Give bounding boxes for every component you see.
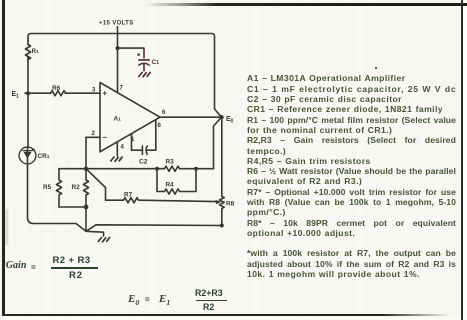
wire: R2 bottom to ground vee bbox=[85, 207, 87, 231]
resistor R5 bbox=[56, 169, 61, 207]
svg-text:R2: R2 bbox=[72, 184, 81, 191]
stray dot artifact bbox=[375, 67, 377, 69]
wire: output pin 6 to E0 bbox=[160, 116, 222, 118]
node R8 bottom bbox=[220, 224, 224, 228]
wire: R6 to pin 3 bbox=[66, 92, 101, 94]
wire: R7 to R8 wiper arrow bbox=[140, 200, 218, 201]
svg-text:4: 4 bbox=[121, 145, 125, 151]
resistor R3 bbox=[165, 166, 180, 171]
capacitor C1 bbox=[139, 49, 150, 71]
op-amp - mark bbox=[103, 136, 106, 138]
svg-text:R4: R4 bbox=[166, 182, 175, 189]
potentiometer R8 body bbox=[221, 119, 223, 196]
ground (C1) bbox=[139, 73, 150, 77]
svg-text:R5: R5 bbox=[43, 184, 52, 191]
wire: top bootstrap rail bbox=[28, 34, 222, 118]
svg-text:R7: R7 bbox=[124, 192, 133, 199]
resistor R6 bbox=[51, 91, 66, 96]
op-amp A1 bbox=[100, 83, 160, 152]
ground (pin 4) bbox=[111, 157, 122, 161]
ground (main vee) bbox=[86, 231, 104, 236]
svg-text:R3: R3 bbox=[166, 159, 175, 166]
node: C1 tap junction bbox=[116, 46, 120, 50]
node E1 junction bbox=[26, 91, 30, 95]
wire: R3 to feedback drop bbox=[181, 168, 214, 170]
node E0 bbox=[219, 115, 223, 119]
svg-text:A1: A1 bbox=[114, 116, 122, 123]
pin 4 stub wire bbox=[116, 142, 118, 156]
node R4 left tap bbox=[155, 167, 159, 171]
wire: inverting node to R3 bbox=[86, 168, 165, 170]
+15V supply wire bbox=[117, 27, 119, 93]
wire: R5 branch top bbox=[59, 168, 86, 170]
resistor R1 bbox=[25, 45, 30, 60]
svg-text:E0: E0 bbox=[226, 116, 234, 125]
wire: left rail R1 to CR1 bbox=[27, 57, 29, 148]
gain formula bbox=[3, 260, 27, 271]
svg-text:E1: E1 bbox=[12, 91, 20, 100]
svg-text:2: 2 bbox=[92, 131, 96, 137]
wire: feedback drop E0 to R3 row bbox=[214, 117, 222, 169]
node inverting junction bbox=[84, 167, 88, 171]
wire: diagonal inverting node to R7 bbox=[86, 169, 124, 201]
svg-text:8: 8 bbox=[158, 123, 162, 129]
svg-text:C2: C2 bbox=[139, 159, 148, 166]
svg-text:R6: R6 bbox=[52, 85, 61, 92]
parts list text bbox=[247, 74, 456, 83]
node R2 bottom junction bbox=[84, 205, 89, 210]
svg-text:R8: R8 bbox=[226, 201, 235, 208]
svg-text:+15 VOLTS: +15 VOLTS bbox=[99, 21, 134, 27]
zener diode CR1 bbox=[19, 147, 36, 164]
svg-text:C1: C1 bbox=[152, 59, 160, 66]
svg-text:7: 7 bbox=[120, 86, 124, 92]
wire: C1 tap to C1 bbox=[120, 47, 145, 49]
op-amp + mark bbox=[103, 92, 106, 95]
resistor R2 bbox=[83, 169, 88, 207]
capacitor C2 with pin1/pin8 stubs bbox=[132, 134, 142, 150]
wire: E1 to R6 bbox=[25, 92, 51, 94]
photo smudge near left border bbox=[5, 209, 9, 245]
node R4 right tap bbox=[194, 167, 198, 171]
output formula bbox=[128, 293, 139, 307]
svg-text:CR1: CR1 bbox=[38, 153, 50, 160]
svg-text:R1: R1 bbox=[32, 48, 40, 55]
resistor R4 loop bbox=[157, 169, 165, 192]
wire: R5/R2 bottom bbox=[59, 206, 86, 208]
svg-text:6: 6 bbox=[162, 110, 166, 116]
wire: CR1 to bottom rail with ground vee bbox=[28, 164, 222, 231]
pin 2 stub wire bbox=[86, 137, 100, 168]
resistor R7 bbox=[124, 198, 139, 203]
